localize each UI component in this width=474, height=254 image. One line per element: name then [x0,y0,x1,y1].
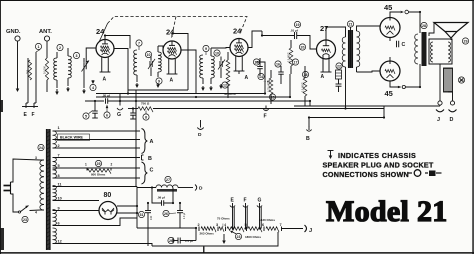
svg-text:.01 μf: .01 μf [290,29,298,33]
legend chassis note [330,151,332,156]
field coil 30 [444,68,453,92]
node 23 divider [235,233,241,239]
resistor R4 0.25MEG [269,78,273,94]
legend plug symbol [408,172,412,174]
svg-text:A: A [170,78,174,84]
coil T1 primary [342,37,345,67]
capacitor C5 [278,71,284,73]
svg-text:ANT.: ANT. [39,29,52,35]
wire plate V5 plug [390,12,400,18]
svg-text:29: 29 [464,39,468,43]
svg-text:2: 2 [59,46,61,50]
terminal J plug [438,101,442,105]
svg-text:A: A [103,77,107,83]
svg-text:9: 9 [158,79,160,83]
svg-text:1.0 μf: 1.0 μf [182,212,186,219]
svg-text:INDICATES CHASSIS: INDICATES CHASSIS [338,151,416,160]
svg-text:| 4: | 4 [223,223,227,227]
svg-text:10,000: 10,000 [43,65,47,73]
svg-text:26: 26 [164,212,168,216]
svg-text:8: 8 [145,115,147,119]
wire cathode V4 [322,56,324,71]
svg-text:75 Ohms: 75 Ohms [217,217,230,221]
wire AC top [11,159,41,182]
transformer T1 interstage 21 [347,21,353,27]
node 2 [57,44,63,50]
resistor R5 0.5MEG [289,48,293,66]
wire stage2 cathode caps [130,112,136,114]
tube V6 45 [380,61,400,81]
node 22 [336,63,342,69]
ground [67,87,69,90]
svg-text:1: 1 [38,45,40,49]
ground divider [223,234,225,242]
svg-text:A: A [245,75,249,81]
wire grid stage3 [211,47,230,50]
svg-text:2: 2 [111,163,113,167]
wire bottom rail [152,232,278,246]
wire grid stage1 [86,48,96,58]
node 1 [35,43,41,49]
node 13 [253,59,259,65]
svg-text:4: 4 [35,211,37,215]
svg-text:10: 10 [215,51,219,55]
svg-text:4: 4 [92,86,94,90]
svg-text:1: 1 [58,126,60,130]
svg-text:0.5 MEG.: 0.5 MEG. [288,51,291,62]
transformer T3 power core [46,129,50,250]
svg-text:E: E [24,112,28,118]
svg-text:A: A [321,74,325,80]
svg-text:F: F [264,114,267,120]
wire bleeder left [195,229,197,241]
svg-text:263 Ohms: 263 Ohms [200,232,215,236]
heater V4 legs [322,60,324,72]
node 16 [275,61,281,67]
wire HT vertical [135,101,137,187]
svg-text:C: C [150,168,154,174]
wire bus screen [120,62,265,94]
wire cathode join [390,81,398,87]
voice coil box [429,39,452,64]
svg-text:26: 26 [169,239,173,243]
node 20 [299,44,305,50]
svg-text:CONNECTIONS SHOWN: CONNECTIONS SHOWN [323,170,409,179]
wire grid 27 [310,44,317,49]
coil L3 RF primary [134,50,137,75]
svg-text:21: 21 [349,22,353,26]
svg-text:20: 20 [301,45,305,49]
coil L6 RF secondary [211,56,214,78]
svg-text:28: 28 [422,24,426,28]
svg-text:A: A [150,139,154,145]
node 4 [90,84,96,90]
wire bus detector B+ [85,100,104,102]
svg-text:12: 12 [58,240,62,244]
coil L5 RF primary [200,55,203,78]
svg-text:.09 μf: .09 μf [157,196,165,200]
wire plate V1 [114,49,128,94]
ground [202,86,204,89]
coil T3 secondary C [53,186,57,201]
svg-text:31: 31 [140,213,144,217]
svg-text:BLACK WIRE: BLACK WIRE [60,136,84,140]
svg-text:140: 140 [149,215,153,220]
node 10b [214,50,220,56]
wire screen V2 [172,34,188,91]
wire divider to J [282,228,304,230]
svg-text:18: 18 [304,73,308,77]
coil L1 antenna primary [54,58,57,80]
terminal D plug [450,101,454,105]
svg-text:10: 10 [58,197,62,201]
ground [157,83,159,86]
svg-text:1: 1 [85,163,87,167]
coil T3 secondary A [53,131,57,148]
coil T1 secondary [357,31,360,67]
capacitor C3 trimmer [219,61,221,67]
brace A [142,129,148,154]
node 6 capacitor [104,112,110,118]
wire to 45 grid [360,26,380,27]
svg-text:.05 μf: .05 μf [102,94,110,98]
svg-text:0.5 MEG.: 0.5 MEG. [302,81,305,92]
ground [17,86,19,90]
svg-text:5: 5 [58,164,60,168]
coil T3 secondary E [53,228,57,244]
node 3 [73,52,79,58]
svg-text:F: F [244,198,247,204]
wire bus 45 cathode to J [294,105,440,107]
svg-text:J: J [437,117,440,123]
capacitor C2 trimmer [149,61,151,67]
resistor R7 bias box [336,70,342,79]
resistor R2 10,000 [45,58,48,80]
node 31 capacitor [138,211,144,217]
svg-text:27: 27 [320,24,328,33]
svg-text:24: 24 [233,27,242,36]
svg-text:17: 17 [294,60,298,64]
svg-text:250: 250 [26,69,30,74]
wire antenna input [27,58,29,103]
svg-text:B: B [306,136,310,142]
speaker cone 29 [434,23,468,32]
wire heater V2 [168,59,170,74]
choke L7 filter 27 [165,176,171,182]
capacitor C1 tuning [83,63,85,70]
wire plate V3 coupling [248,31,262,48]
svg-text:J: J [309,228,312,234]
svg-text:16: 16 [276,62,280,66]
wire E F leads [25,103,27,108]
svg-text:E: E [231,198,235,204]
wire 80 connections [117,205,137,207]
svg-text:F: F [32,112,35,118]
terminal D plug pin [195,185,197,191]
resistor R3 50000 cathode [226,60,230,86]
node 9 [156,78,162,84]
svg-text:6: 6 [106,113,108,117]
svg-text:3: 3 [216,223,218,227]
switch SW 23 [20,206,29,213]
resistor R6 0.5MEG [303,78,307,96]
svg-text:7: 7 [58,154,60,158]
coil L2 antenna secondary [68,56,71,78]
ground [83,89,85,92]
svg-text:7: 7 [138,41,140,45]
svg-text:12: 12 [223,83,227,87]
node 9b [203,45,209,51]
svg-text:50,000 Ω: 50,000 Ω [224,92,236,96]
wire bias line [309,117,384,119]
terminal B chassis [308,118,310,128]
terminal F chassis [263,109,268,111]
capacitor C6 coupling [294,32,296,39]
svg-text:C: C [402,42,406,48]
capacitor C4 [257,66,263,68]
wire bus plate supply [128,89,188,91]
svg-text:24: 24 [39,146,43,150]
svg-text:9: 9 [205,47,207,51]
wire plate V2 [181,50,196,94]
transformer T2 output 28 [421,22,427,28]
svg-text:10: 10 [147,53,151,57]
svg-text:GND.: GND. [6,29,21,35]
wire AC bottom switch [11,194,20,212]
svg-text:8: 8 [58,174,60,178]
wire heater V1 [101,58,103,73]
wire grid cap dashed gang [100,24,108,42]
ground [56,89,58,93]
wire heater V3 [235,57,237,72]
capacitor C7 cathode [336,83,342,85]
wire primary return [345,72,347,109]
svg-text:25: 25 [97,162,101,166]
svg-text:2: 2 [198,223,200,227]
svg-text:0.25 MEG.: 0.25 MEG. [268,80,271,92]
svg-text:45: 45 [385,89,393,98]
node 14 [258,73,264,79]
svg-text:6: 6 [58,222,60,226]
wire plate V4 [326,27,344,40]
svg-text:23: 23 [23,218,27,222]
svg-text:1800 Ohms: 1800 Ohms [245,235,261,239]
svg-text:80: 80 [104,192,112,199]
capacitor C9 .05uf [105,98,107,104]
svg-text:2: 2 [58,144,60,148]
svg-text:14: 14 [259,75,263,79]
svg-text:24: 24 [166,28,175,37]
terminal D chassis upper [200,120,202,128]
svg-text:11: 11 [58,183,62,187]
node 18 [302,71,308,77]
svg-text:800 Ohms: 800 Ohms [91,173,106,177]
node 24 [38,144,44,150]
svg-text:D: D [198,132,202,138]
node 8 [143,114,149,120]
coil T3 secondary B [53,158,57,179]
svg-text:B: B [148,156,152,162]
node 26 capacitor 1.0uf [163,210,169,216]
node 7 [136,40,142,46]
svg-text:Model 21: Model 21 [326,195,448,228]
svg-text:G: G [258,198,262,204]
resistor R1 antenna [28,60,31,80]
node 17 [292,59,298,65]
svg-text:D: D [199,186,203,192]
svg-text:27: 27 [166,178,170,182]
svg-text:5: 5 [85,114,87,118]
svg-text:3: 3 [76,54,78,58]
capacitor C8 interstage C [396,41,398,48]
ground [220,84,222,87]
node 26 capacitor 1.5uf [168,237,174,243]
ground [210,86,212,89]
svg-text:22: 22 [337,64,341,68]
svg-text:45: 45 [384,3,392,12]
brace C [142,162,148,184]
wire screen V1 [105,36,130,49]
scan edge lines [0,252,474,254]
svg-text:1.5 μf: 1.5 μf [185,239,193,243]
svg-text:7: 7 [280,223,282,227]
svg-text:23: 23 [237,235,241,239]
svg-text:G: G [117,112,121,118]
svg-text:D: D [450,117,454,123]
wire vertical feed [135,90,137,101]
wire to 45 grid lower [357,71,381,72]
node 12b [222,82,228,88]
AC plug [10,182,12,194]
node 10 [145,51,151,57]
svg-text:750 Ω: 750 Ω [141,102,150,106]
coil L4 RF secondary [158,52,161,72]
junction dots [127,92,129,94]
ground [136,83,138,86]
wire grid stage2 [158,46,163,50]
scan mark left [0,100,3,112]
node 15 [269,94,275,100]
wire speaker to plug [439,64,441,101]
svg-text:9: 9 [58,207,60,211]
coil T3 secondary D [53,210,57,226]
capacitor C10 G [117,108,123,110]
node 19 [294,21,300,27]
node 5 capacitor [83,113,89,119]
svg-text:19: 19 [296,23,300,27]
svg-text:6: 6 [262,223,264,227]
coil T3 primary [40,160,44,210]
svg-text:SPEAKER PLUG AND SOCKET: SPEAKER PLUG AND SOCKET [323,161,434,170]
